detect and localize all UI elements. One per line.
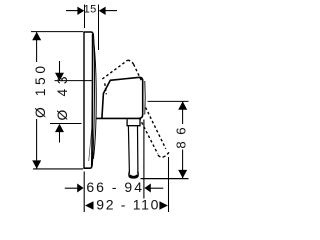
dim Ø43: upper stub	[59, 61, 61, 75]
svg-text:15: 15	[84, 4, 97, 16]
dim Ø150: dimension line	[36, 32, 38, 62]
dim 66-94: left arrow	[65, 187, 78, 189]
dim Ø43: top arrow	[55, 73, 64, 81]
handle collar	[127, 119, 140, 126]
dim 15: right extension line	[98, 5, 100, 51]
dim 86: bottom extension line	[141, 178, 189, 180]
handle lever tip	[129, 172, 138, 178]
svg-text:66 - 94: 66 - 94	[86, 179, 144, 195]
escutcheon plate front rim arc	[92, 34, 94, 166]
dashed lever rotated up: lower-left edge	[102, 60, 127, 79]
dashed lever rotated up: tip arc	[128, 60, 134, 64]
handle lever tip bottom cap	[130, 175, 138, 177]
valve body outline	[97, 77, 143, 118]
dim 86: bottom arrow	[178, 170, 187, 178]
dim Ø43: top extension line	[55, 80, 92, 82]
dim Ø43: bottom arrow	[55, 124, 64, 132]
dim 86: top arrow	[178, 101, 187, 109]
escutcheon plate front rim outer arc	[93, 43, 96, 159]
svg-text:86: 86	[173, 121, 188, 149]
dashed lever swung out: left edge	[139, 118, 157, 154]
dashed lever rotated up: base stub	[105, 83, 107, 94]
escutcheon plate bottom edge	[83, 166, 92, 169]
escutcheon plate back edge	[83, 32, 85, 169]
escutcheon plate front face (thick)	[91, 34, 94, 167]
dim Ø150: bottom extension line	[33, 168, 83, 170]
dim Ø150: top extension line	[31, 31, 83, 33]
escutcheon plate inner cone line	[89, 129, 92, 161]
valve body end cap line	[144, 81, 146, 115]
dashed lever rotated up: right edge	[134, 64, 142, 81]
dim Ø43: bottom extension line	[50, 123, 82, 125]
dim 66-94: right arrow	[150, 187, 163, 189]
dim 66-94: right extension line	[143, 120, 145, 199]
dim 86: top extension line	[148, 100, 189, 102]
dim 92-110: right extension line	[168, 157, 170, 212]
dashed lever swung out: tip arc	[158, 152, 169, 157]
svg-text:Ø 43: Ø 43	[55, 72, 70, 121]
svg-text:92 - 110: 92 - 110	[96, 197, 160, 213]
dim Ø43: lower stub	[59, 130, 61, 143]
dim 66-94: left extension line	[83, 172, 85, 213]
dim 15: right arrow	[104, 10, 117, 12]
dim Ø150: top arrow	[32, 32, 41, 40]
svg-text:Ø 150: Ø 150	[33, 62, 48, 118]
dim 15: left extension line	[84, 5, 86, 29]
handle lever shaft	[128, 126, 129, 172]
dashed lever swung out: right edge	[146, 108, 166, 149]
dim 92-110: left arrow	[85, 201, 94, 210]
escutcheon plate top edge	[83, 32, 93, 35]
dim 15: left arrow	[66, 10, 78, 12]
dim 86: dimension line	[182, 102, 184, 125]
dim Ø150: bottom arrow	[32, 160, 41, 168]
dim 92-110: right arrow	[159, 201, 168, 210]
